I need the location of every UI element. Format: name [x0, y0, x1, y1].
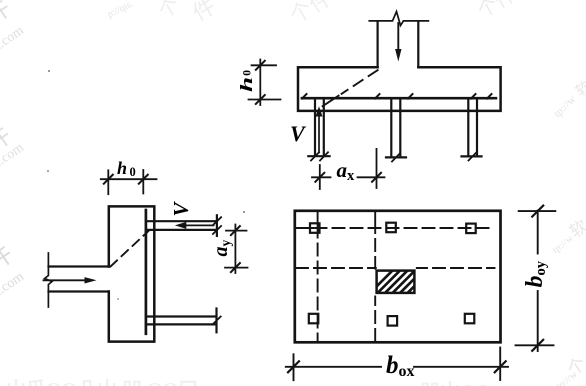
column top line (left section)	[49, 265, 109, 267]
punching cone dashed line (left section)	[111, 231, 149, 267]
rebar line (top section)	[302, 97, 496, 100]
pile P4 bottom line	[146, 229, 216, 231]
rebar tick 5	[487, 94, 492, 99]
svg-text:山瓜QQ凸山 凹 QQ口: 山瓜QQ凸山 凹 QQ口	[6, 378, 198, 386]
svg-text:d.com: d.com	[0, 23, 27, 55]
svg-text:ay: ay	[210, 240, 233, 257]
rebar tick 1	[302, 94, 307, 99]
svg-text:凹山QQ: 凹山QQ	[420, 380, 491, 386]
svg-text:V: V	[290, 121, 307, 146]
dimension box tick right	[495, 361, 506, 372]
dimension box right extension	[499, 348, 501, 381]
pile square top-right	[466, 224, 476, 234]
svg-text:box: box	[386, 352, 415, 380]
pile P4 top line	[146, 220, 216, 222]
pile P4 end plate	[216, 215, 218, 236]
dimension h0 (top section) bottom extension	[249, 99, 281, 101]
dimension boy dim line upper part	[537, 211, 539, 254]
pile P3 end tick	[469, 152, 477, 160]
plan axis horizontal top (dashed)	[296, 227, 489, 229]
svg-text:0: 0	[242, 70, 254, 76]
column load arrow (top section)	[395, 23, 401, 62]
pile P2 end plate	[386, 156, 406, 158]
pile P1 end tick left	[311, 152, 319, 160]
svg-text:个件: 个件	[473, 0, 519, 23]
pile P3 end plate	[462, 155, 482, 157]
pile P4 end tick bottom	[213, 226, 221, 234]
dimension ax tick left	[315, 173, 324, 182]
svg-text:件: 件	[188, 0, 220, 26]
svg-text:p://qis.: p://qis.	[106, 0, 136, 20]
column load arrow (left section)	[44, 277, 97, 283]
dimension ay tick top	[231, 226, 240, 235]
dimension ax dim line left part	[312, 176, 331, 178]
pile P2 right line	[399, 99, 401, 157]
dimension ay bottom extension	[225, 267, 248, 269]
dimension ay tick bottom	[231, 263, 240, 272]
pile P1 end tick right	[320, 152, 328, 160]
dimension ax dim line right part	[358, 176, 385, 178]
dimension ay top extension	[226, 230, 247, 232]
scan speck 4	[117, 298, 119, 300]
pile P5 end plate	[215, 309, 217, 333]
pile P3 right line	[476, 99, 478, 156]
punching cone dashed line (top section)	[323, 70, 378, 106]
pile cap outline (left section)	[109, 206, 155, 341]
pile square top-left	[310, 223, 320, 233]
pile P5 end tick	[213, 317, 221, 325]
column hatch lines	[368, 268, 433, 295]
svg-text:tp://w: tp://w	[551, 93, 578, 120]
dimension box dim line left part	[286, 366, 381, 368]
dimension box left extension	[293, 354, 295, 380]
pile P1 right line	[323, 99, 325, 155]
column right line (top section)	[417, 22, 419, 67]
svg-text:V: V	[169, 201, 193, 217]
svg-text:软: 软	[573, 78, 586, 100]
dimension ax left extension	[319, 165, 321, 189]
dimension h0 (left section) right extension	[142, 170, 144, 194]
dimension h0 (left section) tick left	[104, 175, 113, 184]
svg-text:boy: boy	[522, 260, 549, 287]
pile P4 end tick top	[213, 217, 221, 225]
pile P3 left line	[467, 99, 469, 156]
rebar tick 2	[375, 94, 380, 99]
pile square bottom-left	[309, 314, 319, 324]
column bottom line (left section)	[49, 290, 109, 292]
dimension boy tick bottom	[532, 340, 543, 351]
pile cap outline (top section)	[298, 67, 501, 111]
plan axis vertical left (dashed)	[317, 212, 319, 343]
dimension ax tick right	[372, 173, 381, 182]
dimension h0 (top section) tick top	[256, 61, 265, 70]
rebar tick 3	[408, 94, 413, 99]
pile P5 top line	[146, 315, 216, 317]
pile P2 end tick	[392, 153, 400, 161]
scan speck 1	[48, 70, 50, 72]
dimension h0 (left section) dim line	[101, 178, 157, 180]
pile P1 left line	[314, 99, 316, 155]
pile square top-middle	[386, 223, 396, 233]
plan axis vertical middle (dashed)	[374, 212, 376, 341]
column left line (top section)	[377, 22, 379, 67]
pile P2 left line	[390, 99, 392, 157]
dimension box tick left	[288, 361, 299, 372]
dimension h0 (left section) left extension	[107, 170, 109, 194]
dimension h0 (left section) tick right	[139, 175, 148, 184]
dimension box dim line right part	[414, 366, 508, 368]
svg-text:h0: h0	[117, 158, 136, 179]
dimension boy tick top	[532, 206, 543, 217]
svg-text:个件: 个件	[285, 0, 336, 28]
plan cap outline	[295, 211, 501, 342]
pile P1 end plate	[308, 155, 329, 157]
shear arrow V (left section)	[175, 222, 214, 229]
rebar tick 4	[471, 94, 476, 99]
pile P5 bottom line	[146, 323, 216, 325]
dimension boy bottom extension	[516, 344, 554, 346]
column hatched rectangle	[377, 271, 415, 293]
column break symbol (left section)	[45, 253, 52, 307]
svg-text:h: h	[237, 77, 256, 92]
scan speck 3	[243, 211, 245, 213]
plan axis horizontal middle (dashed)	[296, 267, 495, 269]
pile square bottom-right	[465, 314, 475, 324]
dimension boy top extension	[519, 210, 556, 212]
dimension h0 (top section) tick bottom	[256, 95, 265, 104]
svg-text:d.com: d.com	[0, 269, 27, 301]
pile square bottom-middle	[388, 316, 398, 326]
dimension boy dim line lower part	[537, 291, 539, 351]
shear arrow V (top section)	[316, 106, 323, 152]
rebar line (left section)	[145, 210, 148, 334]
dimension h0 (top section) dim line	[259, 60, 261, 106]
dimension h0 (top section) top extension	[252, 64, 277, 66]
dimension ay dim line	[234, 225, 236, 274]
svg-text:个: 个	[155, 0, 184, 23]
column break symbol (top section)	[369, 12, 428, 26]
scan speck 2	[47, 170, 49, 172]
dimension ax right extension	[376, 149, 378, 188]
svg-text:ax: ax	[337, 158, 356, 184]
